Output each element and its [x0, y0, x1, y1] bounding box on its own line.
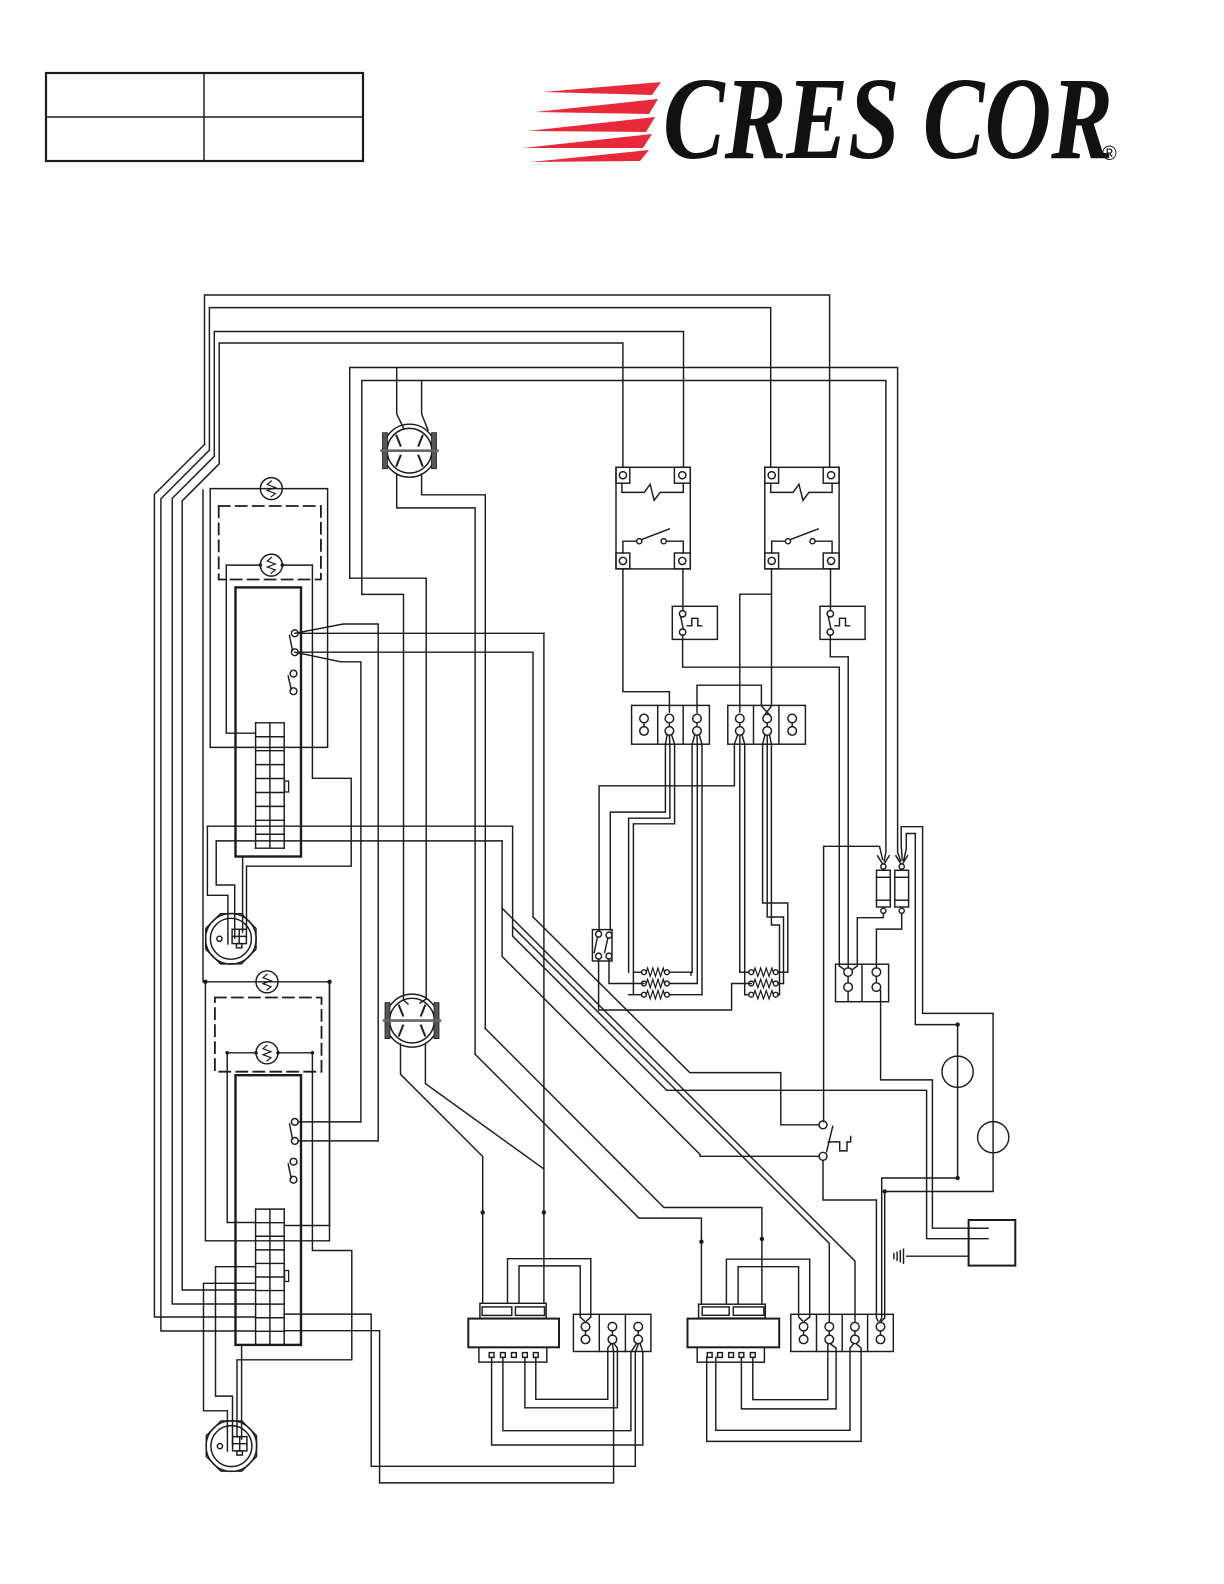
- power plug P2 outer circle: [206, 1421, 257, 1472]
- wire TH2 right drop to plug2 loop: [237, 1053, 352, 1437]
- heater right bank row2 zigzag element: [754, 979, 774, 987]
- svg-text:®: ®: [1102, 143, 1117, 165]
- power plug P1 inner circle: [210, 918, 251, 959]
- contactor sec2 top circle: [872, 968, 881, 977]
- motor M2 blade upper-left: [399, 1006, 403, 1016]
- junction dot T2 primary left: [699, 1240, 703, 1244]
- heater left bank row2 left terminal: [642, 981, 647, 986]
- strip1 right divider b: [778, 705, 780, 744]
- wire TH2 contact1 feed: [298, 1121, 361, 1123]
- relay K1 switch blade: [642, 529, 670, 540]
- motor M1 blade upper-right: [419, 436, 423, 446]
- power plug P2 block tab: [237, 1451, 243, 1455]
- heater left bank row3 right terminal: [665, 992, 670, 997]
- strip1 sec1 bottom circle: [640, 727, 649, 736]
- wire contactor sec2 out to control box: [881, 991, 988, 1229]
- motor M2 left mount bar: [385, 1003, 390, 1039]
- motor M2 outer circle: [386, 994, 439, 1047]
- terminal ladder LD2 rung 6: [256, 1290, 285, 1292]
- T1 secondary pin 3: [512, 1353, 517, 1358]
- door switch bottom contact: [819, 1152, 827, 1160]
- relay K2 terminal circle TR: [828, 472, 835, 479]
- TH2 corner node right: [327, 980, 331, 984]
- terminal ladder LD2 rung 10: [256, 1344, 285, 1346]
- terminal ladder LD1 rung 2: [256, 750, 285, 752]
- strip1 sec2 fan wire c: [633, 736, 674, 995]
- timer TM2 blade: [828, 617, 831, 629]
- terminal ladder LD1 left rail: [255, 723, 257, 848]
- strip2 sec1 link: [585, 1331, 587, 1335]
- wire T1 primary loop A to strip2 sec1: [508, 1259, 591, 1321]
- DPST contact BR: [606, 953, 612, 959]
- thermostat TH2 outer box: [205, 982, 329, 1241]
- wire relay K2 BL jog: [740, 569, 772, 712]
- terminal ladder LD2 rung 3: [256, 1249, 285, 1251]
- ladder LD2 clip: [285, 1271, 289, 1282]
- strip2 sec2 bottom circle: [608, 1335, 617, 1344]
- motor M1 blade lower-left: [397, 456, 401, 466]
- strip3 sec4 top circle: [876, 1322, 885, 1331]
- T1 secondary pin 4: [523, 1353, 528, 1358]
- timer TM1 blade: [681, 617, 684, 629]
- wire fuse F2 top to lamp feed left: [904, 834, 916, 861]
- strip3 box: [791, 1314, 894, 1351]
- power plug P1 block divider v: [238, 929, 240, 943]
- wire inner box bottom to plug1: [242, 857, 244, 933]
- timer TM1 contact top: [679, 611, 685, 617]
- wire bundle4 diagonal to ladder2: [182, 464, 255, 1290]
- wire T2 sq1 loop to strip3 sec3: [707, 1344, 861, 1441]
- wire L1 top bus to relay2 TR: [205, 295, 830, 467]
- door switch top contact: [819, 1121, 827, 1129]
- TH1 bulb 2 squiggle: [267, 558, 275, 574]
- transformer T2 body: [688, 1319, 780, 1348]
- wire strip2 sec3 mid drop to bus: [371, 1344, 638, 1466]
- TH2 contact upper A: [291, 1119, 298, 1126]
- wire left bank row1 right up: [691, 971, 692, 973]
- wire relay K2 BR to timer TM2: [830, 569, 832, 611]
- heater right bank row2 right terminal: [773, 981, 778, 986]
- junction dot T1 primary left: [481, 1210, 485, 1214]
- junction dot T1 primary right: [542, 1210, 546, 1214]
- wire bundle2 diagonal to ladder2: [161, 450, 256, 1331]
- TH1 upper blade: [290, 636, 293, 651]
- wire left bank row3 right: [669, 994, 702, 996]
- transformer T1 primary winding left: [482, 1307, 512, 1316]
- wire ladder1 row to E3 and plug1 jog B: [216, 840, 502, 842]
- relay K2 terminal circle BR: [828, 557, 835, 564]
- wire thermostat1 contact1 horizontal: [298, 632, 544, 634]
- strip2 sec3 link: [637, 1331, 639, 1335]
- wire left bank row3 left: [629, 994, 642, 996]
- strip1 right group box: [728, 705, 806, 744]
- wire motor M2 bottom-left lead to T1 primary: [401, 1044, 483, 1303]
- heater right bank row3 left terminal: [749, 992, 754, 997]
- fuse F2 entry clip right: [903, 856, 908, 864]
- strip1 sec4 top circle: [736, 714, 745, 723]
- relay K1 terminal circle TL: [619, 472, 626, 479]
- motor M1 inner circle: [387, 428, 432, 473]
- junction dot lamp PL1 top: [955, 1022, 959, 1026]
- wire ladder2 jog to plug2 A: [204, 1283, 256, 1451]
- strip3 sec4 link: [880, 1331, 882, 1335]
- wire T2 sq5 loop to strip3 sec2: [753, 1344, 828, 1399]
- contactor sec1 top circle: [844, 968, 853, 977]
- wire into control box: [969, 1227, 988, 1229]
- DPST blade right: [605, 938, 608, 952]
- motor M1 shaft line: [382, 449, 438, 452]
- TH2 contact lower B: [290, 1176, 297, 1183]
- motor M1 blade upper-left: [397, 436, 401, 446]
- fan wire E6 branch to strip3 sec2: [513, 927, 830, 1321]
- svg-text:CRES COR: CRES COR: [663, 53, 1113, 184]
- motor M2 right mount bar: [434, 1003, 439, 1039]
- fuse F1 entry clip left: [878, 856, 883, 864]
- wire T1 sq4 loop to strip2 sec2: [525, 1344, 618, 1407]
- wire T2 primary loop A to strip3 sec1: [726, 1259, 809, 1321]
- TH1 contact lower B: [290, 688, 297, 695]
- terminal ladder LD2 left rail: [255, 1209, 257, 1345]
- strip1 left group box: [632, 705, 710, 744]
- relay K2 body: [765, 467, 839, 569]
- strip1 sec6 link: [791, 723, 793, 727]
- fan wire E4 to transformer T2 right: [485, 1029, 762, 1304]
- T1 secondary pin 1: [489, 1353, 494, 1358]
- transformer T1 primary box: [480, 1303, 546, 1318]
- wire right bank row3 right: [778, 994, 779, 996]
- motor M2 blade lower-left: [399, 1026, 403, 1036]
- motor M1 outer circle: [383, 424, 436, 477]
- contactor body: [836, 964, 889, 1002]
- relay K2 switch contact left: [785, 539, 790, 544]
- timer TM1 body: [672, 606, 717, 639]
- fuse F1 cap line top: [877, 876, 891, 878]
- wire plug1 jog A: [207, 826, 228, 944]
- wire DPST BL loop to right bank row2: [599, 959, 752, 1010]
- timer TM1 contact bottom: [679, 629, 685, 635]
- fuse F1 cap line bottom: [877, 899, 891, 901]
- terminal ladder LD2 mid rail: [269, 1209, 271, 1345]
- relay K1 terminal square BR: [674, 553, 690, 569]
- wire TH1 right drop to plug1 loop: [247, 565, 352, 929]
- terminal ladder LD1 rung 5: [256, 791, 285, 793]
- power plug P2 block divider h: [233, 1443, 247, 1445]
- TH1 bulb 1 squiggle: [267, 481, 275, 497]
- strip1 sec5 fan wire c: [770, 736, 780, 995]
- wire switch feed from fuse F1 column: [824, 846, 883, 1122]
- fan wire E1 diagonal to door switch top: [533, 917, 819, 1125]
- fuse F1 top terminal: [881, 864, 886, 869]
- wire L2 top bus to relay2 TL: [209, 308, 770, 468]
- thermostat TH2 sensor bulb 2: [256, 1042, 278, 1064]
- strip3 sec2 link: [828, 1331, 830, 1335]
- logo red stripe 1: [543, 82, 661, 95]
- strip1 sec3 fan wire c: [699, 736, 702, 995]
- relay K1 switch right lead: [666, 541, 683, 553]
- strip2 sec1 top circle: [581, 1322, 590, 1331]
- wire fuse F1 bottom to contactor X-right: [853, 913, 884, 969]
- wire thermostat1 contact2 horizontal: [298, 652, 533, 917]
- wire bundle3 diagonal to ladder2: [172, 456, 255, 1304]
- strip2 sec2 top circle: [608, 1322, 617, 1331]
- title block divider horizontal: [46, 116, 363, 118]
- wire v_d contact1 to transformer T1: [543, 633, 545, 1303]
- relay K1 terminal circle TR: [679, 472, 686, 479]
- junction dot lamp PL1 bottom: [955, 1176, 959, 1180]
- strip1 left divider a: [657, 705, 659, 744]
- strip1 sec3 bottom circle: [693, 727, 702, 736]
- strip1 sec4 fan wire b: [739, 736, 741, 972]
- motor M2 inner circle: [390, 998, 435, 1043]
- fan wire E5 to transformer T2 left: [475, 1054, 701, 1304]
- fuse F2 body: [895, 870, 909, 907]
- fan wire E7 branch to strip3 sec3: [502, 908, 855, 1321]
- logo red stripe 4: [523, 134, 652, 148]
- wire motor M1 top-right lead: [422, 381, 428, 431]
- timer TM2 contact bottom: [827, 629, 833, 635]
- heater right bank row3 zigzag element: [754, 991, 774, 999]
- wire motor M1 top-left lead: [397, 368, 404, 430]
- TH2 bulb2 right node: [276, 1051, 280, 1055]
- thermostat TH2 sensor bulb 1: [256, 971, 278, 993]
- relay K2 switch blade: [790, 529, 818, 540]
- strip3 sec2 top circle: [825, 1322, 834, 1331]
- door switch step symbol: [828, 1137, 850, 1151]
- strip3 sec3 bottom circle: [851, 1335, 860, 1344]
- relay K2 terminal square BR: [823, 553, 839, 569]
- ground bar 2: [899, 1251, 901, 1262]
- heater right bank row1 zigzag element: [754, 968, 774, 976]
- terminal ladder LD1 mid rail: [269, 723, 271, 848]
- terminal ladder LD1 rung 3: [256, 764, 285, 766]
- power plug P2 center contact block: [233, 1437, 247, 1451]
- terminal ladder LD2 rung 4: [256, 1262, 285, 1264]
- T2 secondary pin 4: [739, 1353, 744, 1358]
- strip1 sec4 fan wire a: [599, 736, 737, 931]
- TH1 bulb2 right node: [281, 563, 285, 567]
- strip1 sec2 fan wire a: [610, 736, 667, 931]
- wire strip2 sec2 mid drop to bus: [380, 1344, 614, 1483]
- strip2 sec1 bottom circle: [581, 1335, 590, 1344]
- relay K1 switch contact left: [637, 539, 642, 544]
- strip1 sec4 fan wire c: [742, 736, 745, 995]
- wire strip2 sec3 X-right to bus: [492, 1344, 643, 1445]
- terminal ladder LD1 rung 0: [256, 722, 285, 724]
- wire contactor sec1 bottom drop: [847, 992, 849, 1002]
- wire L3 top bus to relay1 TR: [214, 332, 683, 468]
- motor M1 left mount bar: [383, 433, 388, 469]
- title block table outer: [46, 73, 363, 161]
- heater right bank row3 right terminal: [773, 992, 778, 997]
- wire relay K2 BL branch to strip1 sec5 X-right: [764, 594, 771, 715]
- wire T1 sq5 loop to strip2 sec2: [536, 1344, 611, 1399]
- strip3 sec2 bottom circle: [825, 1335, 834, 1344]
- power plug P1 block tab: [236, 944, 242, 948]
- timer TM2 step symbol: [835, 618, 850, 626]
- relay K2 terminal square TL: [765, 467, 779, 483]
- heater right bank row1 left terminal: [749, 970, 754, 975]
- wire door switch bottom to strip3 sec4 X-left: [823, 1160, 878, 1321]
- strip1 right divider a: [753, 705, 755, 744]
- transformer T2 primary winding left: [702, 1307, 729, 1315]
- wire L4 top bus to relay1 TL: [219, 343, 623, 467]
- power plug P2 index hole: [217, 1444, 222, 1449]
- wire bundle1 diagonal to ladder2: [154, 445, 255, 1318]
- motor M1 blade lower-right: [419, 456, 423, 466]
- TH2 bulb2 left node: [254, 1051, 258, 1055]
- wire thermostat1 contact1 slant to v_c: [295, 624, 378, 1141]
- strip2 divider: [598, 1314, 600, 1351]
- strip1 sec4 bottom circle: [736, 727, 745, 736]
- TH2 contact lower A: [290, 1158, 297, 1165]
- junction dot T2 primary right: [760, 1237, 764, 1241]
- relay K2 switch right lead: [815, 541, 832, 553]
- strip1 sec4 link: [739, 723, 741, 727]
- strip1 sec6 top circle: [788, 714, 797, 723]
- wire ladder2 bottom to plug2: [241, 1345, 243, 1439]
- ground bar 3: [896, 1252, 898, 1260]
- timer TM1 step symbol: [687, 618, 702, 626]
- wire timer TM1 out to contactor X-left: [683, 635, 844, 969]
- DPST contact BL: [596, 953, 602, 959]
- wire strip1 sec3 top link to sec5 X-left: [697, 685, 770, 715]
- strip1 sec1 link: [643, 723, 645, 727]
- relay K1 terminal square TR: [674, 467, 690, 483]
- strip3 divider: [841, 1314, 843, 1351]
- fuse F1 bottom terminal: [881, 908, 886, 913]
- strip1 sec2 fan wire b: [629, 736, 670, 972]
- TH2 upper blade: [290, 1124, 293, 1139]
- terminal ladder LD2 rung 7: [256, 1303, 285, 1305]
- thermostat TH1 sensor bulb 2: [260, 554, 282, 576]
- junction dot strip3 sec4 feed corner: [883, 1189, 887, 1193]
- strip2 sec2 link: [611, 1331, 613, 1335]
- strip3 divider: [816, 1314, 818, 1351]
- relay K2 terminal circle TL: [768, 472, 775, 479]
- wire ladder2 row to riser A: [284, 1314, 371, 1466]
- strip1 sec3 link: [696, 723, 698, 727]
- wire lamp PL2 to strip3 sec4: [882, 1122, 994, 1321]
- DPST contact TL: [596, 931, 602, 937]
- wire fuse F2 bottom to contactor sec2: [876, 913, 901, 968]
- strip1 sec5 fan wire a: [763, 736, 788, 973]
- TH2 bulb 1 squiggle: [263, 974, 271, 990]
- power plug P1 center contact block: [232, 929, 246, 943]
- relay K2 terminal square TR: [823, 467, 839, 483]
- T2 secondary pin 5: [750, 1353, 755, 1358]
- ground bar 4: [893, 1254, 895, 1259]
- fuse F2 cap line bottom: [895, 899, 909, 901]
- power plug P1 index hole: [217, 936, 222, 941]
- ground bar 1: [903, 1249, 905, 1263]
- strip3 sec1 link: [803, 1331, 805, 1335]
- relay K2 switch left lead: [772, 541, 786, 553]
- thermostat TH2 dashed capillary box: [215, 998, 322, 1072]
- wire T1 primary loop B to strip2 sec1: [519, 1266, 585, 1321]
- T2 secondary pin 3: [729, 1353, 734, 1358]
- wire strip2 sec3 X-left to bus: [503, 1344, 636, 1430]
- terminal ladder LD1 rung 9: [256, 847, 285, 849]
- terminal ladder LD1 rung 7: [256, 819, 285, 821]
- fuse F2 top terminal: [899, 864, 904, 869]
- timer TM2 body: [820, 606, 865, 639]
- transformer T1 body: [468, 1319, 559, 1348]
- DPST contact TR: [606, 932, 612, 938]
- motor M2 shaft line: [384, 1019, 440, 1022]
- contactor divider: [861, 964, 863, 1002]
- wire relay K1 BL to strip1 sec2: [623, 569, 670, 712]
- title block divider vertical: [203, 73, 205, 161]
- TH1 contact lower A: [290, 670, 297, 677]
- strip2 sec3 top circle: [634, 1322, 643, 1331]
- wire lamp PL1 bottom jog: [880, 1178, 958, 1321]
- wire ladder2 jog to plug2 B: [216, 1267, 256, 1445]
- door switch blade: [827, 1126, 833, 1151]
- wire TH2 right corner drop: [284, 982, 329, 1226]
- TH1 bulb2 line left: [226, 564, 260, 566]
- wire right bank row1 right: [778, 971, 788, 973]
- DPST blade left: [594, 937, 597, 952]
- wire timer TM2 out to contactor center: [830, 635, 848, 968]
- motor M2 blade lower-right: [421, 1026, 425, 1036]
- heater right bank row2 left terminal: [749, 981, 754, 986]
- strip2 divider: [624, 1314, 626, 1351]
- wire T2 sq2 loop to strip3 sec3: [716, 1344, 853, 1430]
- TH2 line right node: [311, 1051, 315, 1055]
- strip2 box: [573, 1314, 651, 1351]
- fuse F2 entry clip left: [896, 856, 901, 864]
- indicator lamp PL1: [942, 1056, 973, 1087]
- ladder LD1 clip: [285, 781, 289, 792]
- wire feed line to fuse1: [362, 381, 886, 862]
- thermostat TH1 outer box: [210, 489, 327, 748]
- terminal ladder LD2 rung 5: [256, 1276, 285, 1278]
- strip3 sec1 bottom circle: [799, 1335, 808, 1344]
- wire motor M2 top-right lead: [420, 999, 426, 1003]
- wire plug1 jog B: [216, 841, 235, 938]
- transformer T1 secondary box: [479, 1347, 547, 1362]
- fan wire E3 ladder1 to door switch bottom: [502, 841, 819, 1156]
- wire left bank row1 right: [669, 972, 691, 975]
- strip1 sec5 top circle: [763, 714, 772, 723]
- logo red stripe 3: [528, 117, 655, 132]
- relay K1 switch contact right: [661, 539, 666, 544]
- wire feed line to fuse2: [350, 368, 901, 862]
- fuse F2 cap line top: [895, 876, 909, 878]
- fan wire E2 ladder1 to control box: [513, 826, 988, 1238]
- strip1 sec3 fan wire b: [696, 736, 698, 984]
- transformer T2 primary winding right: [733, 1307, 764, 1315]
- strip2 sec3 bottom circle: [634, 1335, 643, 1344]
- relay K1 switch left lead: [623, 541, 637, 553]
- heater left bank row1 left terminal: [642, 970, 647, 975]
- TH2 bulb 2 squiggle: [263, 1045, 271, 1061]
- TH2 lower blade: [288, 1164, 291, 1178]
- heater left bank row2 right terminal: [665, 981, 670, 986]
- wire T2 primary loop B to strip3 sec1: [738, 1267, 803, 1321]
- wire lamp1 feed drop: [915, 834, 957, 1025]
- power plug P2 octagon flange: [206, 1421, 256, 1471]
- timer TM2 contact top: [827, 611, 833, 617]
- contactor sec1 bottom circle: [844, 983, 853, 992]
- relay K1 terminal square TL: [616, 467, 630, 483]
- heater left bank row3 left terminal: [642, 992, 647, 997]
- strip3 sec3 top circle: [851, 1322, 860, 1331]
- TH1 lower blade: [288, 676, 291, 690]
- strip3 sec3 link: [854, 1331, 856, 1335]
- fuse F2 bottom terminal: [899, 908, 904, 913]
- strip1 left divider b: [682, 705, 684, 744]
